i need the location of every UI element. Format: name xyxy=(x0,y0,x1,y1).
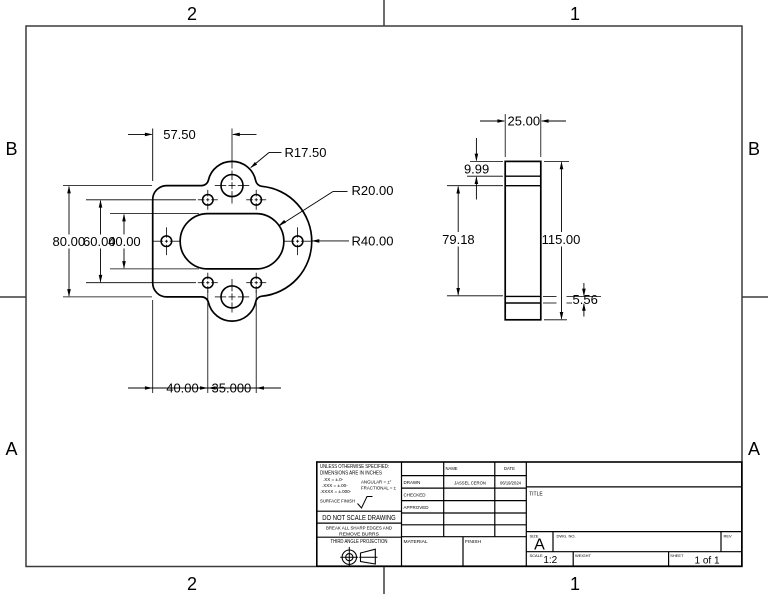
svg-text:DATE: DATE xyxy=(504,466,515,471)
centerlines boss hole bottom xyxy=(215,296,226,298)
centerlines small hole bottom-left xyxy=(198,282,205,284)
centerlines side hole right xyxy=(284,240,294,242)
row line: row5 xyxy=(402,524,527,526)
row line: third angle xyxy=(317,536,402,538)
svg-text:35.000: 35.000 xyxy=(212,381,252,396)
svg-text:25.00: 25.00 xyxy=(508,114,541,129)
row line: approved xyxy=(402,512,527,514)
row line: name/date header xyxy=(402,475,527,477)
svg-text:1: 1 xyxy=(570,574,580,594)
boss hole bottom xyxy=(221,286,243,308)
centerlines small hole top-right xyxy=(246,199,253,201)
svg-text:R20.00: R20.00 xyxy=(352,183,394,198)
boss hole top xyxy=(221,175,243,197)
svg-text:SURFACE FINISH: SURFACE FINISH xyxy=(320,499,355,505)
dim 57.50 extension line (boss centerline) xyxy=(231,129,233,169)
svg-text:1:2: 1:2 xyxy=(543,555,557,566)
svg-text:06/19/2024: 06/19/2024 xyxy=(500,481,522,486)
row line: drawn xyxy=(402,487,527,489)
title block col line finish xyxy=(462,537,464,567)
svg-text:R17.50: R17.50 xyxy=(285,145,327,160)
svg-text:79.18: 79.18 xyxy=(442,232,475,247)
centerlines small hole top-left xyxy=(198,199,205,201)
svg-text:40.00: 40.00 xyxy=(108,234,141,249)
dim 9.99 arrows xyxy=(475,138,477,160)
small hole bottom-left xyxy=(203,277,214,288)
side view body rectangle xyxy=(505,161,541,319)
row line: material row top xyxy=(402,536,527,538)
svg-text:FRACTIONAL = ±: FRACTIONAL = ± xyxy=(361,486,397,491)
small hole top-left xyxy=(203,195,214,206)
svg-text:40.00: 40.00 xyxy=(166,381,199,396)
side view edge line 1 xyxy=(505,175,541,177)
leader R17.50 xyxy=(251,153,269,168)
svg-text:BREAK ALL SHARP EDGES AND: BREAK ALL SHARP EDGES AND xyxy=(326,526,392,532)
svg-text:ANGULAR = ±°: ANGULAR = ±° xyxy=(361,480,392,485)
side view edge line 4 xyxy=(505,302,541,304)
svg-text:THIRD ANGLE PROJECTION: THIRD ANGLE PROJECTION xyxy=(331,539,388,545)
svg-text:.XXXX = ±.000-: .XXXX = ±.000- xyxy=(320,489,352,494)
centerlines side hole left xyxy=(153,240,163,242)
row line: do not scale xyxy=(317,510,402,512)
svg-text:SHEET: SHEET xyxy=(670,553,684,558)
dim 40.00 dimension line w/ arrows xyxy=(123,215,125,235)
svg-text:80.00: 80.00 xyxy=(53,234,86,249)
svg-text:9.99: 9.99 xyxy=(464,162,489,177)
title block col line name xyxy=(494,462,496,537)
svg-text:A: A xyxy=(748,439,760,459)
dim 115.00 extension lines xyxy=(544,160,569,162)
dim 5.56 extension lines xyxy=(543,295,557,297)
dim 60.00 extension lines xyxy=(86,199,196,201)
dim 57.50 dimension line right w/ arrow xyxy=(233,133,257,135)
row line: title top xyxy=(526,486,742,488)
title block col line date/right xyxy=(525,462,527,566)
svg-text:1: 1 xyxy=(570,4,580,24)
svg-text:.XXX = ±.00-: .XXX = ±.00- xyxy=(322,483,348,488)
dim 25.00 extension lines xyxy=(504,114,506,157)
col line: size xyxy=(552,532,554,552)
svg-text:REV: REV xyxy=(724,534,733,539)
centerlines small hole bottom-right xyxy=(246,282,253,284)
svg-text:REMOVE BURRS: REMOVE BURRS xyxy=(339,531,379,537)
svg-text:115.00: 115.00 xyxy=(542,232,581,247)
svg-text:TITLE: TITLE xyxy=(529,492,543,498)
svg-text:R40.00: R40.00 xyxy=(352,233,394,248)
svg-text:DRAWN: DRAWN xyxy=(404,480,421,485)
side hole right xyxy=(292,236,303,247)
side hole left xyxy=(161,236,172,247)
leader R20.00 xyxy=(280,192,334,226)
zone tick right xyxy=(742,296,768,298)
svg-text:A: A xyxy=(5,439,17,459)
col line: weight xyxy=(572,552,574,567)
svg-text:UNLESS OTHERWISE SPECIFIED:: UNLESS OTHERWISE SPECIFIED: xyxy=(320,464,389,470)
title block outer xyxy=(317,462,742,566)
zone tick bottom xyxy=(383,567,385,594)
dim 60.00 dimension line w/ arrows xyxy=(100,201,102,235)
dim 79.18 dimension line w/ arrows xyxy=(457,187,459,232)
svg-text:B: B xyxy=(5,139,17,159)
zone tick top xyxy=(383,0,385,26)
bottom dim extension lines xyxy=(152,300,154,393)
svg-text:NAME: NAME xyxy=(446,466,458,471)
third angle projection symbol: circle xyxy=(342,550,356,564)
dim 25.00 arrows xyxy=(480,120,504,122)
dim 80.00 dimension line w/ arrows xyxy=(68,187,70,235)
svg-text:DO NOT SCALE DRAWING: DO NOT SCALE DRAWING xyxy=(322,513,396,522)
side view edge line 3 xyxy=(505,295,541,297)
svg-text:CHECKED: CHECKED xyxy=(404,493,427,498)
svg-text:SCALE: SCALE xyxy=(530,553,543,558)
col line: rev xyxy=(720,532,722,552)
small hole bottom-right xyxy=(251,277,262,288)
svg-text:2: 2 xyxy=(187,574,197,594)
svg-text:FINISH: FINISH xyxy=(465,539,481,545)
leader R40.00 xyxy=(312,240,349,242)
dim 79.18 extension lines xyxy=(447,185,503,187)
svg-text:.XX = ±.0-: .XX = ±.0- xyxy=(323,477,344,482)
svg-text:DIMENSIONS ARE IN INCHES: DIMENSIONS ARE IN INCHES xyxy=(320,471,382,477)
svg-text:5.56: 5.56 xyxy=(573,292,598,307)
part outline (front view) xyxy=(153,161,312,321)
surface finish checkmark xyxy=(358,497,373,509)
bottom dim 40.00 dimension line w/ arrows xyxy=(128,387,153,389)
svg-text:JASSEL CERON: JASSEL CERON xyxy=(454,481,486,486)
title block col line labels xyxy=(443,462,445,537)
svg-text:WEIGHT: WEIGHT xyxy=(575,553,592,558)
dim 115.00 dimension line w/ arrows xyxy=(561,162,563,232)
svg-text:2: 2 xyxy=(187,4,197,24)
dim 57.50 extension line (left edge) xyxy=(152,129,154,182)
svg-text:B: B xyxy=(748,139,760,159)
bottom dim 35.000 arrow right xyxy=(256,387,281,389)
col line: sheet xyxy=(668,552,670,567)
small hole top-right xyxy=(251,195,262,206)
svg-text:MATERIAL: MATERIAL xyxy=(404,539,428,545)
svg-text:DWG. NO.: DWG. NO. xyxy=(557,534,576,539)
svg-text:A: A xyxy=(534,537,545,554)
dim 9.99 extension lines xyxy=(470,160,503,162)
zone tick left xyxy=(0,296,26,298)
svg-text:57.50: 57.50 xyxy=(163,127,196,142)
svg-text:APPROVED: APPROVED xyxy=(404,505,430,510)
row line: checked xyxy=(402,500,527,502)
dim 40.00 extension lines xyxy=(110,213,199,215)
svg-text:1 of 1: 1 of 1 xyxy=(694,556,719,567)
obround slot cutout xyxy=(180,214,284,269)
row line: break edges xyxy=(317,522,402,524)
dim 5.56 arrows xyxy=(583,283,585,295)
dim 80.00 extension lines xyxy=(63,185,152,187)
third angle projection symbol: frustum xyxy=(361,549,376,564)
title block col line notes xyxy=(401,462,403,566)
row line: size row top xyxy=(526,531,742,533)
side view edge line 2 xyxy=(505,185,541,187)
centerlines boss hole top xyxy=(215,185,226,187)
row line: scale row top xyxy=(526,551,742,553)
dim 57.50 dimension line left w/ arrow xyxy=(128,133,152,135)
